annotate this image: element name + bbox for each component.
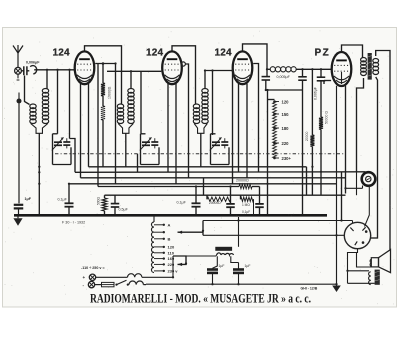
wire grid drop x141	[140, 71, 142, 134]
wire T1 to bus	[38, 133, 40, 214]
svg-text:A: A	[168, 222, 171, 227]
coil T2 interstage transformer	[117, 89, 134, 134]
selector tap long 1	[178, 231, 204, 234]
scan speckle texture	[4, 31, 394, 304]
tube V4 pins	[342, 86, 346, 221]
wire speaker feed b	[348, 270, 370, 272]
svg-text:180: 180	[282, 126, 290, 131]
capacitor antenna earth	[14, 205, 24, 214]
wire stage2 grid line	[107, 70, 161, 72]
svg-text:220: 220	[282, 141, 290, 146]
coil T1 antenna transformer	[30, 89, 49, 134]
wire x98 drop	[97, 64, 99, 187]
svg-text:124: 124	[146, 47, 164, 58]
svg-text:110: 110	[168, 250, 175, 255]
speaker cone	[379, 250, 391, 273]
label 1uF left	[25, 197, 32, 201]
coil T3 interstage transformer	[193, 89, 208, 134]
wire stage3 grid line	[205, 70, 233, 72]
wire speaker bottom	[348, 271, 375, 284]
antenna terminal	[15, 67, 22, 80]
selector tap long 2	[173, 256, 186, 266]
svg-text:150: 150	[282, 112, 290, 117]
fuse	[95, 282, 114, 286]
wire x203 riser	[202, 221, 204, 236]
wire V2 grid-cap bracket	[172, 46, 196, 104]
svg-text:120: 120	[282, 100, 290, 105]
label ediz	[301, 286, 318, 290]
tube V2 pins	[168, 84, 176, 184]
svg-text:0,1μF: 0,1μF	[177, 201, 187, 205]
label 124 first	[53, 47, 71, 58]
wire gang2 drop	[137, 154, 139, 173]
capacitor 0,1uF b	[192, 187, 201, 215]
svg-text:1μF: 1μF	[219, 264, 225, 268]
label tap 150	[282, 112, 290, 117]
svg-text:230+: 230+	[282, 156, 292, 161]
divider resistor chain	[268, 90, 277, 215]
svg-text:GHI - 12/B: GHI - 12/B	[301, 286, 318, 290]
wire T2 to L1	[125, 133, 127, 167]
wire bus L5 with resistor 20000	[98, 184, 260, 188]
mains terminal plus	[83, 274, 96, 280]
wire T2 secondary top	[130, 71, 132, 88]
label 0,1uF a	[58, 197, 68, 201]
divider taps	[273, 100, 279, 159]
label 124 third	[215, 47, 233, 58]
svg-text:1μF: 1μF	[25, 197, 32, 201]
wire gang1 top feed	[57, 70, 59, 134]
svg-text:20000Ω: 20000Ω	[236, 179, 249, 183]
wire bus L6	[105, 194, 346, 196]
valve socket	[344, 222, 370, 248]
hf choke legs	[213, 256, 239, 268]
svg-text:20000: 20000	[305, 131, 309, 141]
label tap 180	[282, 126, 290, 131]
choke mains bottom	[129, 281, 143, 285]
tuning gang section 2	[140, 134, 159, 165]
svg-text:-110 ÷ 250 v ≈: -110 ÷ 250 v ≈	[81, 266, 105, 270]
gang dashed link	[55, 153, 345, 155]
wire mains top	[96, 276, 128, 278]
capacitor 1uF mains a	[207, 268, 218, 284]
resistor 20000 vert	[310, 69, 314, 195]
socket feed top	[352, 221, 354, 224]
wire jog to L2	[70, 139, 76, 173]
voltage selector winding	[151, 215, 154, 272]
resistor 500 ohm	[102, 195, 107, 214]
capacitor 1uF mains b	[233, 270, 244, 285]
wire V2 plate lead	[185, 64, 188, 178]
label tap 120	[282, 100, 290, 105]
wire hv rail	[203, 220, 353, 222]
wire socket bottom	[348, 249, 358, 271]
resistor 20000 group a	[207, 195, 231, 201]
label 0,006uF vertical	[314, 87, 318, 100]
label tap 230+	[282, 156, 292, 161]
label 0,006uF	[26, 61, 40, 65]
svg-text:1μF: 1μF	[245, 264, 251, 268]
label 20000 group	[209, 201, 221, 205]
capacitor mid	[298, 69, 307, 215]
label 20000 ohm horizontal	[236, 179, 249, 183]
resistor group b	[241, 195, 254, 215]
label group b1	[242, 203, 250, 207]
tube V4 PZ	[332, 52, 352, 86]
wire bus L1	[89, 166, 307, 168]
tube V3 124	[233, 51, 253, 84]
label 0,1uF b	[177, 201, 187, 205]
svg-text:220: 220	[168, 262, 175, 267]
svg-text:124: 124	[215, 47, 233, 58]
junction dot V2 plate	[181, 62, 185, 66]
wire T4 primary bottom	[357, 78, 364, 172]
svg-text:20000Ω: 20000Ω	[209, 201, 221, 205]
wire PZ grid-cap bracket	[342, 45, 363, 58]
svg-text:0,006μF: 0,006μF	[26, 61, 40, 65]
tube V1 124	[75, 51, 95, 84]
wire detector bottom	[266, 89, 303, 91]
wire ac line	[173, 254, 217, 257]
chassis bus	[14, 214, 327, 217]
title text	[90, 292, 311, 306]
wire antenna to grid	[34, 69, 75, 71]
wire V3 grid-cap bracket	[243, 44, 268, 69]
wire grid coil feed	[46, 70, 48, 89]
ground terminal dot	[17, 93, 22, 104]
tube V3 pins	[239, 84, 248, 178]
svg-text:0,1μF: 0,1μF	[58, 197, 68, 201]
wire T4 secondary bottom	[371, 77, 378, 238]
junction dot V1 plate	[102, 62, 105, 65]
label 1uF mains b	[245, 264, 251, 268]
wire V1 grid-cap bracket	[85, 46, 122, 104]
wire speaker feed a	[357, 253, 372, 268]
wire T4 secondary top	[376, 51, 390, 250]
wire V1 plate lead	[95, 63, 115, 65]
wire grid drop x232	[232, 71, 234, 184]
svg-text:50000 Ω: 50000 Ω	[325, 111, 329, 124]
pickup jack	[362, 172, 376, 186]
resistor 19000 ohm	[101, 64, 105, 167]
svg-text:0,006μF: 0,006μF	[314, 87, 318, 100]
capacitor 0,1uF a	[65, 184, 74, 214]
wire PZ grid entry	[324, 81, 331, 85]
wire bus L3	[81, 177, 346, 179]
svg-text:RADIOMARELLI - MOD. « MUSAGETE: RADIOMARELLI - MOD. « MUSAGETE JR » a c.…	[90, 292, 311, 306]
wire bus L2	[75, 171, 366, 174]
svg-text:1 MΩ: 1 MΩ	[242, 203, 250, 207]
label 0,5uF	[119, 208, 129, 212]
svg-text:F 30 - I - 1932: F 30 - I - 1932	[62, 220, 85, 224]
svg-text:500Ω: 500Ω	[97, 196, 101, 205]
speaker driver	[370, 258, 378, 267]
label PZ	[315, 47, 331, 58]
wire dc drop	[238, 217, 240, 269]
jack frame wires	[346, 172, 363, 195]
wire T3 to L1	[200, 133, 202, 167]
wire V1 screen drop	[115, 64, 117, 184]
resistor 50000 ohm	[319, 81, 323, 195]
svg-text:0,1μF: 0,1μF	[242, 210, 250, 214]
label 50000 ohm	[325, 111, 329, 124]
label 1uF mains a	[219, 264, 225, 268]
svg-text:PZ: PZ	[315, 47, 331, 58]
switch	[115, 280, 129, 286]
tuning gang section 1	[52, 134, 71, 165]
speaker transformer	[369, 270, 380, 285]
label mains voltage	[81, 266, 105, 270]
wire antenna coil primary feed	[25, 76, 30, 105]
capacitor group a	[226, 187, 235, 215]
mains terminal minus	[83, 281, 95, 288]
capacitor choke left	[262, 69, 271, 90]
capacitor group b	[255, 187, 264, 215]
capacitor 0,006uF grid	[317, 69, 326, 81]
svg-text:160: 160	[168, 256, 175, 261]
tube V2 124	[162, 51, 182, 84]
wire mains top riser	[172, 256, 174, 277]
label tap 220	[282, 141, 290, 146]
wire socket feed	[203, 234, 344, 236]
capacitor C1 0,006uF	[21, 66, 29, 75]
wire grid drop x212	[212, 71, 214, 136]
label 0,005uF	[277, 75, 291, 79]
label 20000 vert	[305, 131, 309, 141]
tube V1 pins	[81, 84, 89, 178]
label 19000 ohm	[108, 86, 112, 99]
hf filter choke core	[215, 247, 232, 251]
wire socket right	[371, 237, 378, 239]
svg-text:0,5μF: 0,5μF	[119, 208, 129, 212]
wire V3 plate lead	[253, 64, 258, 173]
wire bus L4	[69, 183, 337, 185]
wire node T down	[69, 70, 71, 139]
capacitor 0,5uF	[111, 195, 120, 214]
svg-text:124: 124	[53, 47, 71, 58]
wire socket upper link	[365, 186, 370, 227]
svg-text:120: 120	[168, 244, 175, 249]
tuning gang section 3	[210, 134, 229, 165]
wire earth lead	[18, 103, 20, 203]
wire T3 secondary top	[204, 71, 206, 89]
svg-text:19000Ω: 19000Ω	[108, 86, 112, 99]
label F 30	[62, 220, 85, 224]
output transformer T4	[361, 53, 379, 80]
svg-text:0,005μF: 0,005μF	[277, 75, 291, 79]
svg-text:B: B	[168, 236, 171, 241]
antenna	[13, 45, 23, 67]
rf choke	[267, 67, 331, 72]
selector taps	[154, 222, 178, 273]
svg-text:+: +	[83, 275, 86, 280]
ground arrow left	[13, 217, 22, 226]
mains bottom rail	[143, 283, 336, 285]
hf filter choke windings	[217, 253, 234, 255]
label 124 second	[146, 47, 164, 58]
choke mains top	[128, 274, 174, 278]
plug hook	[30, 66, 36, 74]
ground arrow right	[332, 86, 341, 292]
wire group feed	[203, 178, 205, 195]
label 500 ohm	[97, 196, 101, 205]
wire L1 end drop	[306, 167, 308, 195]
label group b2	[242, 210, 250, 214]
